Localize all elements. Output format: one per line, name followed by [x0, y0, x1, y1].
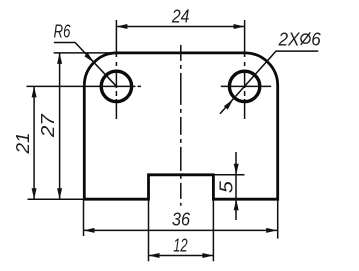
dim 27 arrow top: [57, 53, 62, 64]
dim 24 arrow left: [116, 24, 127, 29]
svg-text:12: 12: [173, 235, 187, 255]
ext line 36 left: [83, 201, 85, 237]
leader 2XØ6: [220, 51, 318, 114]
dim 5 arrow bottom: [234, 199, 239, 210]
dim 24 line: [116, 26, 244, 28]
leader R6: [54, 43, 117, 87]
ext line 12 right: [212, 201, 214, 262]
svg-text:2X: 2X: [278, 30, 301, 50]
label diameter symbol: [301, 32, 311, 45]
svg-text:21: 21: [13, 133, 33, 155]
dim 36 line: [84, 229, 278, 231]
dim 12 arrow right: [202, 253, 213, 258]
ext line top edge left: [54, 52, 116, 54]
dim 36 arrow right: [266, 228, 277, 233]
ext line notch top right: [213, 174, 244, 176]
center line horizontal left hole (also ext line for 21): [27, 85, 142, 87]
plate outline: [84, 53, 277, 199]
dim 24 arrow right: [234, 24, 245, 29]
ext line 36 right: [277, 201, 279, 239]
dim 36 arrow left: [84, 228, 95, 233]
svg-text:R6: R6: [54, 22, 71, 42]
svg-text:5: 5: [217, 180, 237, 193]
dim 12 line: [149, 255, 214, 257]
svg-text:36: 36: [172, 210, 191, 230]
svg-text:6: 6: [311, 30, 321, 50]
dim 21 arrow bottom: [32, 188, 37, 199]
ext line bottom left: [28, 198, 85, 200]
dim 27 line: [59, 53, 61, 199]
center line vertical left hole: [115, 20, 117, 119]
hole right: [229, 71, 259, 101]
dim 21 arrow top: [32, 86, 37, 97]
dim 21 line: [33, 86, 35, 199]
svg-text:27: 27: [38, 113, 58, 138]
svg-text:24: 24: [171, 6, 189, 26]
center line horizontal right hole: [221, 85, 271, 87]
dim 5 line: [235, 152, 237, 220]
center line vertical right hole: [244, 20, 246, 119]
center line middle vertical: [180, 45, 182, 206]
leader 2XØ6 arrow: [224, 99, 233, 109]
dim 12 arrow left: [149, 253, 160, 258]
dim 27 arrow bottom: [57, 188, 62, 199]
leader R6 arrow: [84, 53, 94, 63]
dim 5 arrow top: [234, 164, 239, 175]
hole left: [101, 71, 131, 101]
ext line 12 left: [148, 201, 150, 262]
